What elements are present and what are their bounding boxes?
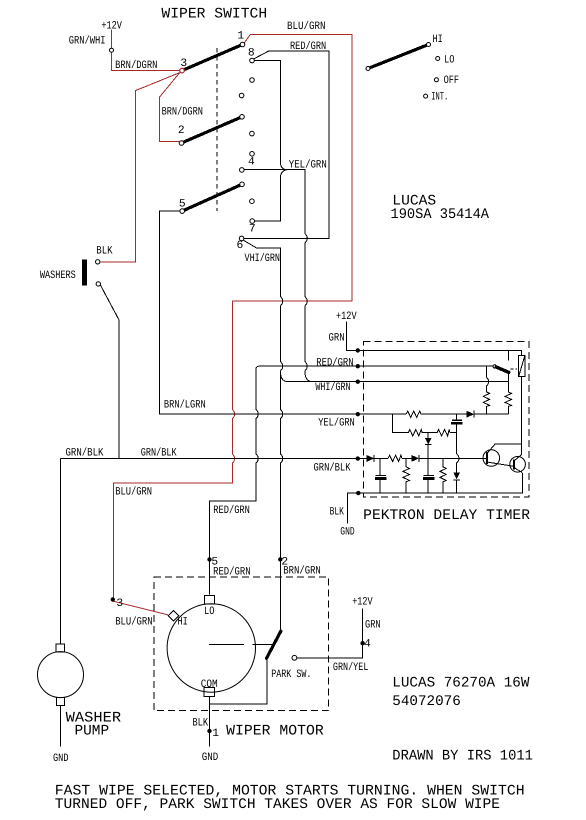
capacitor C2 bottom lead — [379, 480, 381, 493]
svg-text:RED/GRN: RED/GRN — [213, 565, 251, 578]
svg-text:190SA 35414A: 190SA 35414A — [391, 207, 490, 223]
svg-text:PUMP: PUMP — [75, 724, 110, 740]
wire D1 to R1 R2 bottoms — [474, 413, 508, 415]
svg-text:WASHERS: WASHERS — [40, 270, 76, 282]
svg-text:LO: LO — [444, 54, 454, 66]
svg-text:COM: COM — [201, 679, 218, 691]
relay mechanical dashed link — [511, 368, 518, 370]
svg-text:GRN/WHI: GRN/WHI — [69, 34, 106, 47]
svg-text:OFF: OFF — [444, 75, 460, 87]
svg-text:WHI/GRN: WHI/GRN — [315, 381, 350, 394]
terminal dot RED/GRN — [356, 365, 359, 368]
wire YEL/GRN into box — [359, 413, 406, 415]
svg-text:GRN/BLK: GRN/BLK — [66, 446, 104, 459]
svg-text:+12V: +12V — [336, 311, 357, 323]
wire contact8 drop to YEL junction — [255, 60, 287, 169]
svg-text:BLU/GRN: BLU/GRN — [115, 486, 152, 499]
washers switch bar — [82, 260, 87, 286]
wire +12V red feed to switch — [112, 30, 180, 71]
wire YEL junction right and down bus (hops at 238,301,366) merging into WHI/GRN — [287, 170, 313, 382]
relay arm bar — [496, 367, 509, 372]
svg-text:GND: GND — [53, 753, 69, 765]
svg-text:GRN/BLK: GRN/BLK — [141, 446, 177, 459]
transistor Q2 circle — [510, 457, 526, 473]
svg-text:BRN/GRN: BRN/GRN — [283, 564, 321, 577]
relay arm end circle — [493, 365, 496, 368]
relay coil diagonal — [519, 356, 525, 377]
contact 1 circle — [240, 42, 245, 47]
contact 7 circle — [250, 219, 255, 224]
svg-text:PEKTRON DELAY TIMER: PEKTRON DELAY TIMER — [363, 508, 530, 524]
wire YEL junction down to contact 7 — [255, 170, 287, 222]
switch bar 3-1 — [182, 45, 243, 71]
svg-text:LO: LO — [204, 606, 214, 618]
wire +12V GRN feed — [346, 322, 356, 351]
contact 3 circle — [180, 68, 185, 73]
mini switch bar end circle left — [366, 67, 370, 71]
wire COM down to GND — [209, 704, 211, 746]
wire GRN rail inside box to relay coil — [359, 350, 521, 355]
resistor R5 horizontal — [437, 430, 450, 436]
motor park link dashed line — [209, 644, 272, 646]
contact 8 circle — [250, 58, 255, 63]
washer pump bottom square — [56, 698, 64, 706]
svg-text:BRN/LGRN: BRN/LGRN — [164, 399, 206, 412]
wire VHI branch arc into WHI/GRN — [281, 373, 289, 382]
svg-text:PARK SW.: PARK SW. — [271, 669, 311, 681]
diode D5 bar — [453, 479, 460, 481]
wire BRN/LGRN from contact5 down across to timer YEL/GRN — [160, 211, 357, 414]
svg-text:RED/GRN: RED/GRN — [213, 504, 250, 517]
relay coil box — [519, 356, 525, 377]
mini switch bar HI — [368, 45, 429, 69]
svg-text:GRN/BLK: GRN/BLK — [314, 461, 351, 474]
motor contact 2 dot — [279, 558, 282, 561]
svg-text:4: 4 — [364, 639, 371, 651]
mini switch bar end circle right — [427, 43, 431, 47]
svg-text:INT.: INT. — [431, 91, 448, 103]
wire GRN/BLK into box to D3 — [359, 457, 366, 459]
svg-text:2: 2 — [178, 125, 185, 137]
svg-text:LUCAS 76270A 16W: LUCAS 76270A 16W — [392, 676, 529, 692]
mini switch LO circle — [436, 57, 440, 61]
relay coil lead down to Q2 collector — [514, 377, 522, 461]
svg-text:3: 3 — [116, 598, 123, 610]
park switch bar — [267, 631, 281, 658]
contact 6 circle — [239, 236, 244, 241]
contact 4 circle — [250, 152, 255, 157]
svg-text:5: 5 — [179, 199, 186, 211]
wire GRN/BLK horizontal to timer — [60, 458, 356, 460]
wire red fan from contact 3 to contact 2 — [159, 72, 180, 142]
svg-text:BRN/DGRN: BRN/DGRN — [162, 105, 203, 118]
diode D2 lead to GRN/BLK — [427, 445, 429, 459]
svg-text:BLK: BLK — [192, 718, 208, 730]
transistor Q2 base bar — [513, 459, 515, 469]
mini switch INT circle — [424, 94, 428, 98]
wiper motor dashed box — [154, 577, 329, 711]
fixed circle mid column upper — [239, 93, 244, 98]
motor HI terminal diamond — [168, 610, 179, 621]
bar2 top circle — [240, 115, 245, 120]
wire contact8 RED/GRN down right side to contact6 row — [244, 51, 329, 238]
resistor R6 horizontal — [388, 455, 402, 461]
internal ground rail — [360, 473, 522, 493]
bar5 top circle — [240, 182, 245, 187]
washer pump body circle — [38, 652, 84, 698]
diode D5 lead to rail — [456, 480, 458, 493]
svg-text:TURNED OFF, PARK SWITCH TAKES: TURNED OFF, PARK SWITCH TAKES OVER AS FO… — [55, 797, 500, 813]
motor LO terminal square — [204, 596, 214, 605]
wire R6 to D4 — [402, 457, 412, 459]
diode D4 bar — [418, 455, 420, 462]
wire BLU/GRN red main: contact1 right, down, across, down to motor HI — [114, 34, 352, 597]
svg-text:1: 1 — [237, 31, 244, 43]
motor contact 3 dot — [111, 598, 114, 601]
svg-text:VHI/GRN: VHI/GRN — [245, 252, 281, 265]
switch bar 5 — [182, 184, 242, 211]
svg-text:6: 6 — [237, 240, 244, 252]
wire RED/GRN into box to relay arm — [359, 365, 493, 367]
wire red fan from contact 3 to washers switch — [101, 72, 181, 261]
capacitor C3 plates — [423, 475, 434, 477]
wire WHI/GRN into box up to arm and down to R2 — [359, 374, 508, 392]
diode D1 — [467, 411, 475, 418]
pektron timer dashed box — [364, 341, 530, 497]
svg-text:GRN: GRN — [329, 332, 345, 344]
wire COM to park switch bottom — [210, 659, 267, 704]
wire BLK to GND — [348, 493, 357, 523]
wire washers bottom diagonal and GRN/BLK drop — [100, 285, 118, 459]
svg-text:BLU/GRN: BLU/GRN — [287, 20, 326, 33]
wire RED/GRN from timer down to motor LO — [210, 366, 357, 594]
svg-text:GND: GND — [202, 752, 219, 764]
switch bar 2 — [182, 117, 243, 143]
mini switch OFF circle — [434, 78, 438, 82]
capacitor C1 bottom lead with hop over GRN/BLK — [457, 425, 459, 473]
svg-text:WIPER MOTOR: WIPER MOTOR — [226, 724, 324, 740]
capacitor C1 top lead — [456, 414, 458, 419]
svg-text:BLK: BLK — [330, 507, 344, 519]
motor contact 5 dot — [208, 558, 211, 561]
svg-text:DRAWN BY IRS 1011: DRAWN BY IRS 1011 — [392, 749, 533, 765]
svg-text:GND: GND — [340, 526, 355, 538]
wire junction vertical from RED/GRN with hop to R1 — [486, 366, 488, 392]
diode D1 cathode bar — [473, 411, 475, 418]
washers top contact circle — [96, 260, 100, 264]
park switch contact circle — [292, 655, 297, 660]
wire branch from YEL/GRN down to R4 R5 row — [392, 414, 408, 433]
wire red motor contact3 to HI diamond — [114, 601, 168, 615]
svg-text:WIPER SWITCH: WIPER SWITCH — [161, 7, 267, 23]
svg-text:RED/GRN: RED/GRN — [316, 356, 353, 369]
motor body circle — [167, 604, 255, 692]
capacitor C1 plates — [452, 419, 462, 421]
resistor R3 horizontal — [406, 411, 421, 417]
svg-text:BRN/DGRN: BRN/DGRN — [115, 59, 157, 72]
resistor R4 horizontal — [408, 430, 422, 436]
fixed circle right column mid — [250, 131, 255, 136]
wire pole4 to YEL junction — [244, 169, 286, 171]
svg-text:HI: HI — [178, 617, 188, 629]
fixed circle right column lower — [250, 199, 255, 204]
resistor R1 vertical — [483, 392, 489, 414]
svg-text:YEL/GRN: YEL/GRN — [318, 417, 355, 430]
svg-text:1: 1 — [212, 728, 219, 740]
terminal dot WHI/GRN — [356, 380, 359, 383]
transistor Q1 base bar — [486, 452, 488, 464]
node GRN/WHI junction circle — [110, 48, 114, 52]
resistor R8 vertical — [440, 458, 446, 493]
motor COM terminal square — [204, 688, 215, 697]
transistor Q2 emitter — [514, 468, 522, 473]
capacitor C3 top lead — [427, 458, 429, 475]
diode D3 — [367, 455, 375, 462]
svg-text:BLU/GRN: BLU/GRN — [115, 616, 152, 629]
fixed circle below 8 — [250, 78, 255, 83]
diode D4 — [412, 455, 420, 462]
relay pivot stub — [508, 350, 510, 360]
wire park to GRN/YEL +12V — [297, 609, 363, 658]
svg-text:HI: HI — [433, 34, 443, 46]
washers bottom contact circle — [96, 282, 100, 286]
wire D4 to Q1 base — [419, 457, 487, 459]
wire contact6 VHI/GRN down bus to motor contact2 and park switch — [243, 240, 282, 630]
diode D2 — [425, 438, 432, 444]
svg-text:3: 3 — [180, 58, 187, 70]
contact 4 dot park — [361, 642, 364, 645]
wire R5 to C1 lead — [450, 432, 457, 434]
resistor R2 vertical — [505, 392, 511, 414]
wire WHI/GRN horizontal to timer — [288, 381, 356, 383]
switch dashed pole line — [216, 48, 218, 211]
terminal dot GRN — [356, 349, 359, 352]
svg-text:8: 8 — [248, 47, 255, 59]
wire R3 to diode D1 — [421, 413, 466, 415]
capacitor C2 top lead — [379, 458, 381, 475]
diode D5 down — [453, 472, 460, 479]
capacitor C2 plates — [375, 475, 386, 477]
svg-text:+12V: +12V — [352, 597, 373, 609]
capacitor C3 bottom lead — [427, 480, 429, 493]
wire washer pump drop — [59, 459, 61, 644]
resistor R7 vertical — [403, 458, 409, 493]
pole 4 circle — [240, 168, 245, 173]
contact 5 circle — [180, 209, 185, 214]
svg-text:4: 4 — [248, 157, 255, 169]
svg-text:GRN: GRN — [365, 619, 381, 631]
terminal dot BLK — [357, 491, 360, 494]
contact 2 circle — [179, 141, 184, 146]
washer pump top square — [56, 644, 65, 652]
wire pump to GND — [59, 705, 61, 746]
transistor Q1 emitter — [487, 462, 514, 466]
wire R4 to R5 — [422, 432, 437, 434]
terminal dot YEL/GRN — [356, 413, 359, 416]
svg-text:7: 7 — [249, 224, 256, 236]
svg-text:54072076: 54072076 — [392, 694, 461, 710]
terminal dot GRN/BLK — [356, 457, 359, 460]
svg-text:GRN/YEL: GRN/YEL — [333, 661, 369, 674]
transistor Q1 collector — [487, 444, 522, 454]
transistor Q1 circle — [483, 450, 500, 467]
svg-text:+12V: +12V — [101, 21, 122, 33]
motor contact 1 dot — [208, 729, 211, 732]
diode D2 down lead — [427, 433, 429, 438]
diode D2 bar — [425, 444, 432, 446]
wire D3 to R6 — [374, 457, 388, 459]
svg-text:BLK: BLK — [96, 246, 112, 258]
diode D3 bar — [373, 455, 375, 462]
